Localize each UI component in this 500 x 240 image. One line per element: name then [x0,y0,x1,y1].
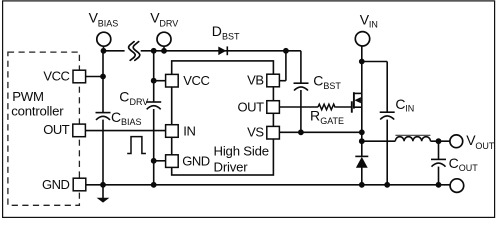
svg-text:controller: controller [11,104,64,119]
svg-text:C: C [395,96,405,112]
svg-text:GATE: GATE [320,116,344,126]
svg-text:OUT: OUT [43,122,70,137]
svg-text:R: R [310,107,320,123]
svg-text:OUT: OUT [459,163,479,173]
svg-text:DRV: DRV [159,19,178,29]
svg-text:VB: VB [247,73,263,88]
svg-text:VCC: VCC [183,73,209,88]
svg-text:D: D [212,23,222,39]
svg-text:IN: IN [369,20,378,30]
svg-text:IN: IN [405,104,414,114]
svg-text:IN: IN [183,123,195,138]
svg-text:Driver: Driver [214,159,249,174]
svg-text:C: C [449,155,459,171]
svg-text:BST: BST [222,32,240,42]
svg-text:High Side: High Side [214,144,269,159]
svg-text:C: C [119,89,129,105]
svg-text:PWM: PWM [12,89,44,104]
svg-text:C: C [111,109,121,125]
svg-text:VS: VS [247,124,264,139]
svg-text:GND: GND [182,153,210,168]
svg-text:BIAS: BIAS [98,19,119,29]
svg-text:BST: BST [323,81,341,91]
svg-text:OUT: OUT [475,141,495,151]
svg-text:GND: GND [42,177,70,192]
svg-text:C: C [313,73,323,89]
svg-text:VCC: VCC [43,69,69,84]
svg-text:BIAS: BIAS [121,117,142,127]
svg-text:OUT: OUT [238,99,265,114]
svg-text:DRV: DRV [130,97,149,107]
